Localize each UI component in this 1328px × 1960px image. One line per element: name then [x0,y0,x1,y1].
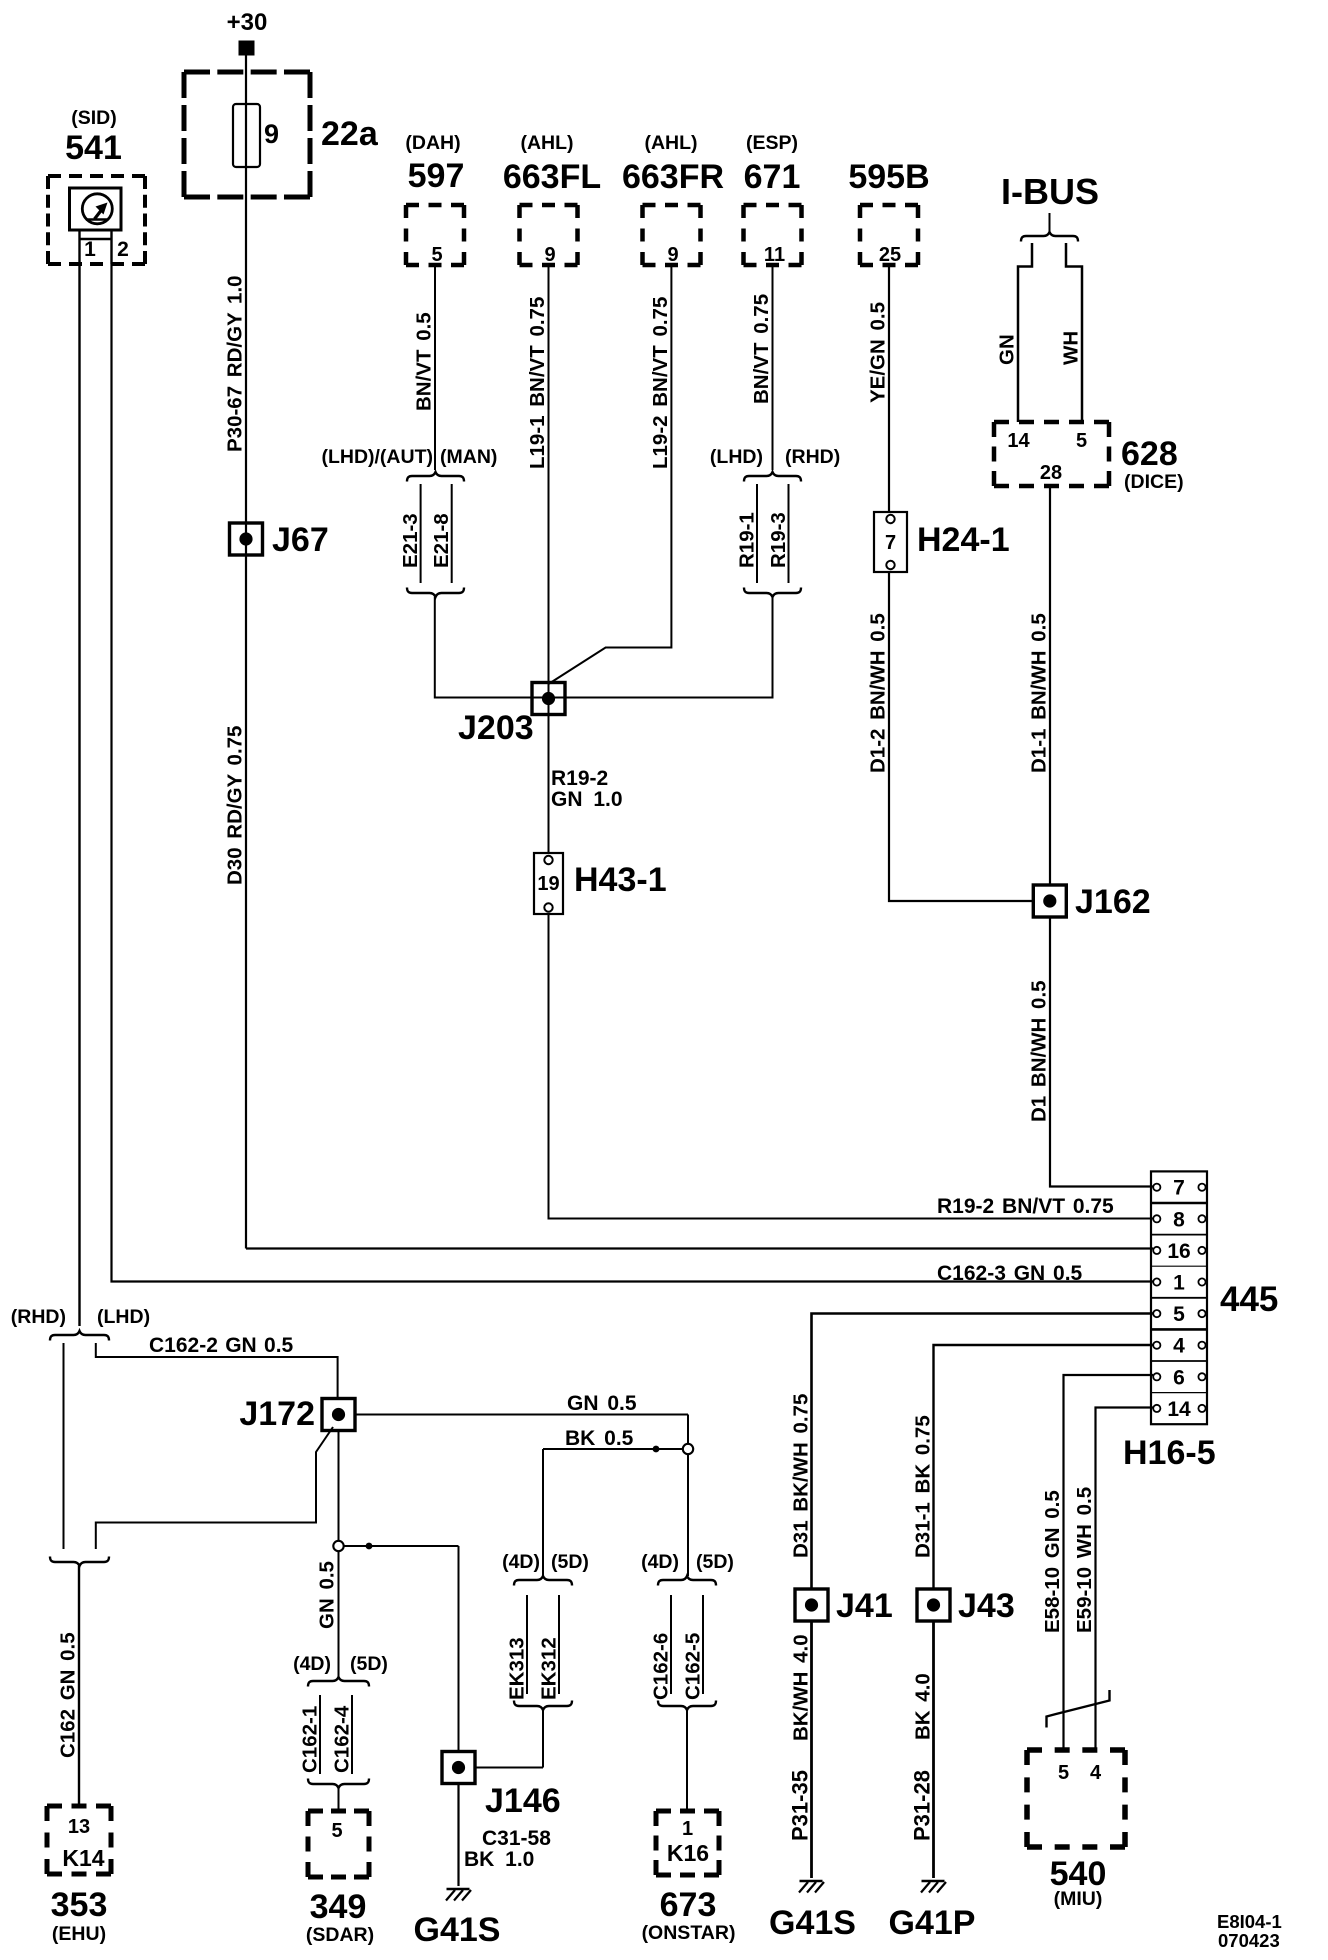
svg-text:K16: K16 [667,1840,709,1866]
svg-text:YE/GN 0.5: YE/GN 0.5 [867,302,890,403]
svg-text:BK 0.5: BK 0.5 [565,1427,634,1450]
svg-text:1: 1 [682,1818,693,1840]
svg-text:H16-5: H16-5 [1123,1434,1216,1472]
svg-text:25: 25 [879,244,901,266]
svg-text:(ESP): (ESP) [746,132,798,154]
svg-text:C162-6: C162-6 [650,1633,673,1700]
svg-text:13: 13 [68,1816,90,1838]
svg-text:4: 4 [1090,1762,1102,1784]
svg-text:671: 671 [744,158,801,196]
svg-text:I-BUS: I-BUS [1001,171,1099,212]
svg-text:BN/VT 0.5: BN/VT 0.5 [413,312,436,411]
svg-text:EK313: EK313 [506,1637,529,1700]
svg-text:445: 445 [1220,1280,1278,1319]
svg-text:D31-1 BK 0.75: D31-1 BK 0.75 [912,1415,935,1558]
svg-text:(EHU): (EHU) [52,1923,106,1945]
svg-text:P30-67 RD/GY 1.0: P30-67 RD/GY 1.0 [224,275,247,452]
svg-text:(LHD): (LHD) [97,1306,150,1328]
svg-text:22a: 22a [321,115,379,153]
svg-text:+30: +30 [227,9,268,36]
svg-text:(LHD): (LHD) [710,446,763,468]
svg-text:GN 1.0: GN 1.0 [551,788,623,811]
svg-text:5: 5 [1058,1762,1069,1784]
svg-text:P31-28: P31-28 [910,1770,935,1841]
svg-text:14: 14 [1007,430,1030,452]
svg-text:4: 4 [1173,1335,1185,1358]
svg-text:WH: WH [1060,331,1083,365]
svg-text:C31-58: C31-58 [482,1827,551,1850]
svg-text:D1-1 BN/WH 0.5: D1-1 BN/WH 0.5 [1028,613,1051,773]
svg-text:1: 1 [84,238,96,261]
svg-text:19: 19 [537,873,559,895]
svg-text:7: 7 [885,532,896,554]
svg-text:(SID): (SID) [71,107,117,129]
svg-text:349: 349 [310,1888,367,1926]
svg-text:(4D): (4D) [641,1551,679,1573]
svg-text:E58-10 GN 0.5: E58-10 GN 0.5 [1041,1490,1064,1633]
svg-text:14: 14 [1167,1398,1191,1421]
svg-text:16: 16 [1167,1240,1190,1263]
svg-text:(SDAR): (SDAR) [306,1924,374,1946]
svg-text:9: 9 [264,119,279,149]
svg-text:E21-8: E21-8 [430,513,453,568]
svg-text:8: 8 [1173,1208,1185,1231]
svg-text:D1 BN/WH 0.5: D1 BN/WH 0.5 [1028,980,1051,1122]
svg-text:L19-1 BN/VT 0.75: L19-1 BN/VT 0.75 [526,297,549,469]
svg-text:(MIU): (MIU) [1054,1888,1103,1910]
svg-text:C162-5: C162-5 [682,1633,705,1700]
svg-text:541: 541 [65,129,122,167]
svg-text:G41S: G41S [769,1904,856,1942]
svg-text:(MAN): (MAN) [440,446,497,468]
svg-text:J172: J172 [239,1395,315,1433]
svg-text:J203: J203 [458,709,534,747]
svg-text:EK312: EK312 [538,1637,561,1700]
svg-text:6: 6 [1173,1366,1185,1389]
svg-text:11: 11 [764,244,785,266]
svg-text:D30 RD/GY 0.75: D30 RD/GY 0.75 [224,726,247,885]
svg-text:(ONSTAR): (ONSTAR) [642,1922,736,1944]
svg-text:J67: J67 [272,521,329,559]
svg-text:1: 1 [1173,1272,1185,1295]
svg-text:C162 GN 0.5: C162 GN 0.5 [57,1632,80,1758]
svg-text:(5D): (5D) [551,1551,589,1573]
svg-text:5: 5 [431,244,442,266]
svg-text:D31 BK/WH 0.75: D31 BK/WH 0.75 [790,1394,813,1558]
svg-text:L19-2 BN/VT 0.75: L19-2 BN/VT 0.75 [649,297,672,469]
svg-text:H43-1: H43-1 [574,861,667,899]
svg-text:673: 673 [660,1886,717,1924]
svg-text:353: 353 [51,1886,108,1924]
svg-text:GN 0.5: GN 0.5 [567,1392,637,1415]
svg-text:K14: K14 [62,1845,104,1871]
svg-text:R19-2: R19-2 [551,767,608,790]
svg-text:G41S: G41S [414,1911,501,1949]
svg-text:GN: GN [996,334,1019,365]
svg-text:070423: 070423 [1218,1930,1280,1951]
svg-text:(RHD): (RHD) [11,1306,66,1328]
svg-text:663FR: 663FR [622,158,724,196]
svg-text:9: 9 [544,244,555,266]
svg-text:(AHL): (AHL) [644,132,697,154]
svg-text:J146: J146 [485,1782,561,1820]
svg-text:R19-1: R19-1 [736,512,759,568]
svg-text:E21-3: E21-3 [399,513,422,568]
svg-text:D1-2 BN/WH 0.5: D1-2 BN/WH 0.5 [867,613,890,773]
svg-text:E59-10 WH 0.5: E59-10 WH 0.5 [1073,1487,1096,1633]
svg-text:J162: J162 [1075,883,1151,921]
svg-text:BK 1.0: BK 1.0 [464,1848,534,1871]
svg-text:C162-2 GN 0.5: C162-2 GN 0.5 [149,1334,294,1357]
svg-text:J41: J41 [836,1587,893,1625]
svg-text:H24-1: H24-1 [917,521,1010,559]
svg-text:R19-2 BN/VT 0.75: R19-2 BN/VT 0.75 [937,1195,1114,1218]
svg-text:(DAH): (DAH) [405,132,460,154]
svg-text:2: 2 [117,238,129,261]
svg-text:(RHD): (RHD) [785,446,840,468]
svg-text:(4D): (4D) [502,1551,540,1573]
svg-text:P31-35: P31-35 [788,1770,813,1841]
svg-text:G41P: G41P [889,1904,976,1942]
svg-text:595B: 595B [848,158,929,196]
svg-text:7: 7 [1173,1177,1185,1200]
svg-text:GN 0.5: GN 0.5 [316,1561,339,1629]
svg-text:(AHL): (AHL) [520,132,573,154]
svg-text:663FL: 663FL [503,158,601,196]
svg-text:5: 5 [331,1820,342,1842]
svg-text:(5D): (5D) [696,1551,734,1573]
svg-text:BN/VT 0.75: BN/VT 0.75 [750,294,773,404]
svg-text:(4D): (4D) [293,1653,331,1675]
svg-text:E8I04-1: E8I04-1 [1217,1911,1282,1932]
svg-text:BK 4.0: BK 4.0 [912,1673,935,1740]
svg-text:BK/WH 4.0: BK/WH 4.0 [790,1634,813,1741]
svg-text:J43: J43 [958,1587,1015,1625]
svg-text:C162-3 GN 0.5: C162-3 GN 0.5 [937,1262,1083,1285]
svg-text:5: 5 [1173,1303,1185,1326]
svg-text:597: 597 [408,157,465,195]
svg-text:9: 9 [667,244,678,266]
svg-text:628: 628 [1121,435,1178,473]
svg-text:C162-4: C162-4 [331,1705,354,1773]
svg-text:R19-3: R19-3 [767,512,790,568]
svg-text:28: 28 [1040,462,1062,484]
svg-text:(DICE): (DICE) [1124,471,1184,493]
svg-text:C162-1: C162-1 [299,1706,322,1773]
svg-text:5: 5 [1076,430,1087,452]
svg-text:(LHD)/(AUT): (LHD)/(AUT) [321,446,433,468]
svg-text:(5D): (5D) [350,1653,388,1675]
